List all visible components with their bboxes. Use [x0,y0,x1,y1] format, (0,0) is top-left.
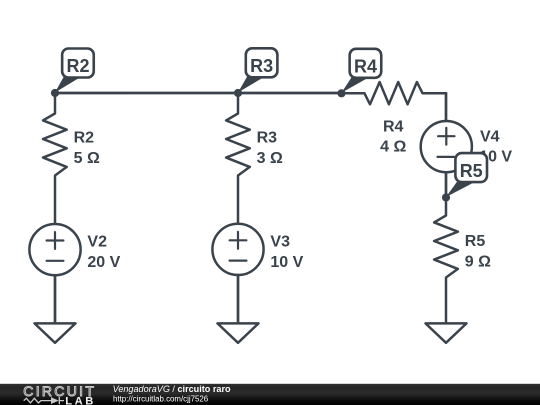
callout tag R5 [446,153,487,197]
V2 plus sign [47,232,64,249]
V3 plus sign [230,232,247,249]
svg-text:V4: V4 [480,128,500,145]
svg-text:VengadoraVG / circuito raro: VengadoraVG / circuito raro [113,384,231,394]
svg-text:R2: R2 [66,56,89,76]
ground symbol branch 3 [426,323,467,342]
wire V3 bottom to ground [237,275,240,323]
svg-text:R4: R4 [383,119,404,136]
footer bar [0,384,540,405]
wire right corner down to V4 [445,93,448,121]
wire V2 bottom to ground [54,275,57,323]
svg-text:5 Ω: 5 Ω [74,150,100,167]
node junction dot branch 2 [234,89,242,97]
svg-text:10 V: 10 V [270,254,303,271]
V4 plus sign [438,128,454,145]
svg-text:V2: V2 [87,234,107,251]
resistor R4 (horizontal, with leads) [342,82,447,104]
node junction dot at R4 [337,89,345,97]
CircuitLab logo resistor zigzag [24,398,51,403]
svg-text:R4: R4 [354,56,377,76]
node B junction dot V4/R5 [442,193,450,201]
callout tag R3 [238,48,277,92]
svg-text:9 Ω: 9 Ω [465,253,491,270]
resistor R5 (vertical, with leads) [434,198,458,323]
svg-text:R3: R3 [257,130,278,147]
svg-text:4 Ω: 4 Ω [380,139,406,156]
svg-text:LAB: LAB [65,395,96,405]
CircuitLab logo diode symbol [51,397,59,404]
V4 minus sign [438,156,454,158]
resistor R3 (vertical, with leads) [226,93,250,224]
svg-text:V3: V3 [270,234,290,251]
wire top horizontal bus from node A to R4 [55,92,342,95]
V3 minus sign [230,260,247,262]
svg-text:R3: R3 [250,56,273,76]
V2 minus sign [47,260,64,262]
voltage source V3 circle [212,224,263,275]
callout tag R2 [55,49,94,93]
svg-text:20 V: 20 V [87,254,120,271]
svg-text:R2: R2 [74,130,95,147]
callout tag R4 [342,49,382,93]
ground symbol branch 1 [35,323,76,342]
voltage source V4 circle [421,121,472,172]
svg-text:http://circuitlab.com/cjj7526: http://circuitlab.com/cjj7526 [113,395,209,404]
ground symbol branch 2 [218,323,259,342]
wire V4 bottom to node B [445,172,448,197]
resistor R2 (vertical, with leads) [43,93,67,224]
svg-text:R5: R5 [465,233,486,250]
svg-text:R5: R5 [460,161,483,181]
voltage source V2 circle [29,224,80,275]
svg-text:3 Ω: 3 Ω [257,150,283,167]
node A junction dot [51,89,59,97]
